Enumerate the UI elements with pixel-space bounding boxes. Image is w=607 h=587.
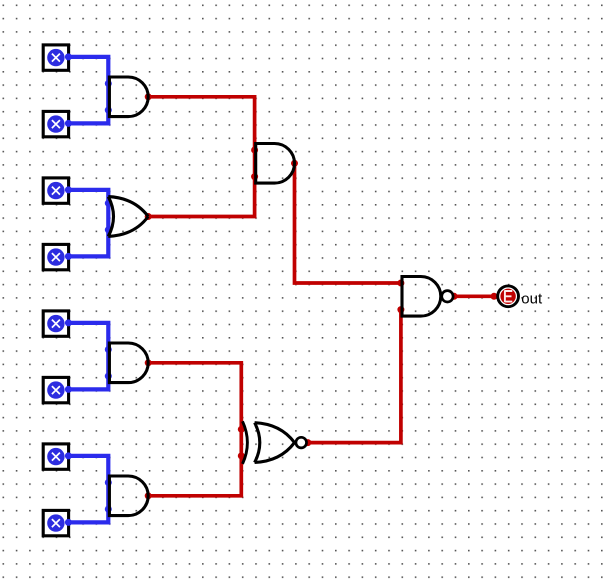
- NOR gate U6: [243, 421, 307, 464]
- wire net pins P3-P4 to U2 inputs: [68, 190, 109, 257]
- input port junction at col8 row 15: [105, 200, 112, 207]
- input port junction at col8 row 28: [105, 373, 112, 380]
- NOR top input port: [238, 426, 245, 433]
- NAND gate U7: [402, 277, 453, 317]
- wire net U6 out to U7 bottom input: [308, 310, 401, 443]
- input pin P3: [43, 178, 68, 203]
- port of input pin 6: [65, 386, 72, 393]
- port of input pin 8: [65, 519, 72, 526]
- wire net pins P1-P2 to U1 inputs: [68, 57, 109, 124]
- input pin P8: [43, 510, 68, 535]
- U3 output port: [145, 359, 152, 366]
- U5 output port: [291, 160, 298, 167]
- wire net U5 out to U7 top input: [295, 163, 401, 283]
- output pin (error value E): [498, 286, 519, 307]
- U1 output port: [145, 93, 152, 100]
- wire net U3 out / U4 out to U6 inputs: [148, 363, 241, 496]
- AND gate U4: [109, 476, 148, 516]
- port of input pin 7: [65, 452, 72, 459]
- U5 bottom input port: [251, 173, 258, 180]
- output pin port: [491, 293, 498, 300]
- port of input pin 2: [65, 120, 72, 127]
- input port junction at col8 row 8: [105, 107, 112, 114]
- OR gate U2: [108, 197, 148, 237]
- input pin P7: [43, 444, 68, 469]
- input pin P2: [43, 111, 68, 136]
- NAND output port: [451, 293, 458, 300]
- AND gate U3: [109, 343, 148, 383]
- port of input pin 3: [65, 186, 72, 193]
- port of input pin 4: [65, 253, 72, 260]
- input pin P6: [43, 377, 68, 402]
- NOR output port: [304, 439, 311, 446]
- wire net pins P5-P6 to U3 inputs: [68, 323, 109, 390]
- U4 output port: [145, 492, 152, 499]
- port of input pin 5: [65, 319, 72, 326]
- NAND bottom input port: [397, 306, 404, 313]
- AND gate U1: [109, 77, 148, 117]
- input port junction at col8 row 17: [105, 226, 112, 233]
- input port junction at col8 row 38: [105, 506, 112, 513]
- svg-text:out: out: [521, 291, 543, 308]
- U5 top input port: [251, 147, 258, 154]
- input port junction at col8 row 36: [105, 479, 112, 486]
- wire net pins P7-P8 to U4 inputs: [68, 456, 109, 523]
- wire net U7 out to output pin: [454, 294, 494, 298]
- port of input pin 1: [65, 53, 72, 60]
- input pin P1: [43, 45, 68, 70]
- U2 output port: [145, 213, 152, 220]
- input port junction at col8 row 26: [105, 346, 112, 353]
- input pin P4: [43, 244, 68, 269]
- wire net U1 out / U2 out to U5 inputs: [148, 97, 254, 217]
- input pin P5: [43, 311, 68, 336]
- NAND top input port: [397, 280, 404, 287]
- NOR bottom input port: [238, 452, 245, 459]
- AND gate U5: [256, 144, 295, 184]
- input port junction at col8 row 6: [105, 80, 112, 87]
